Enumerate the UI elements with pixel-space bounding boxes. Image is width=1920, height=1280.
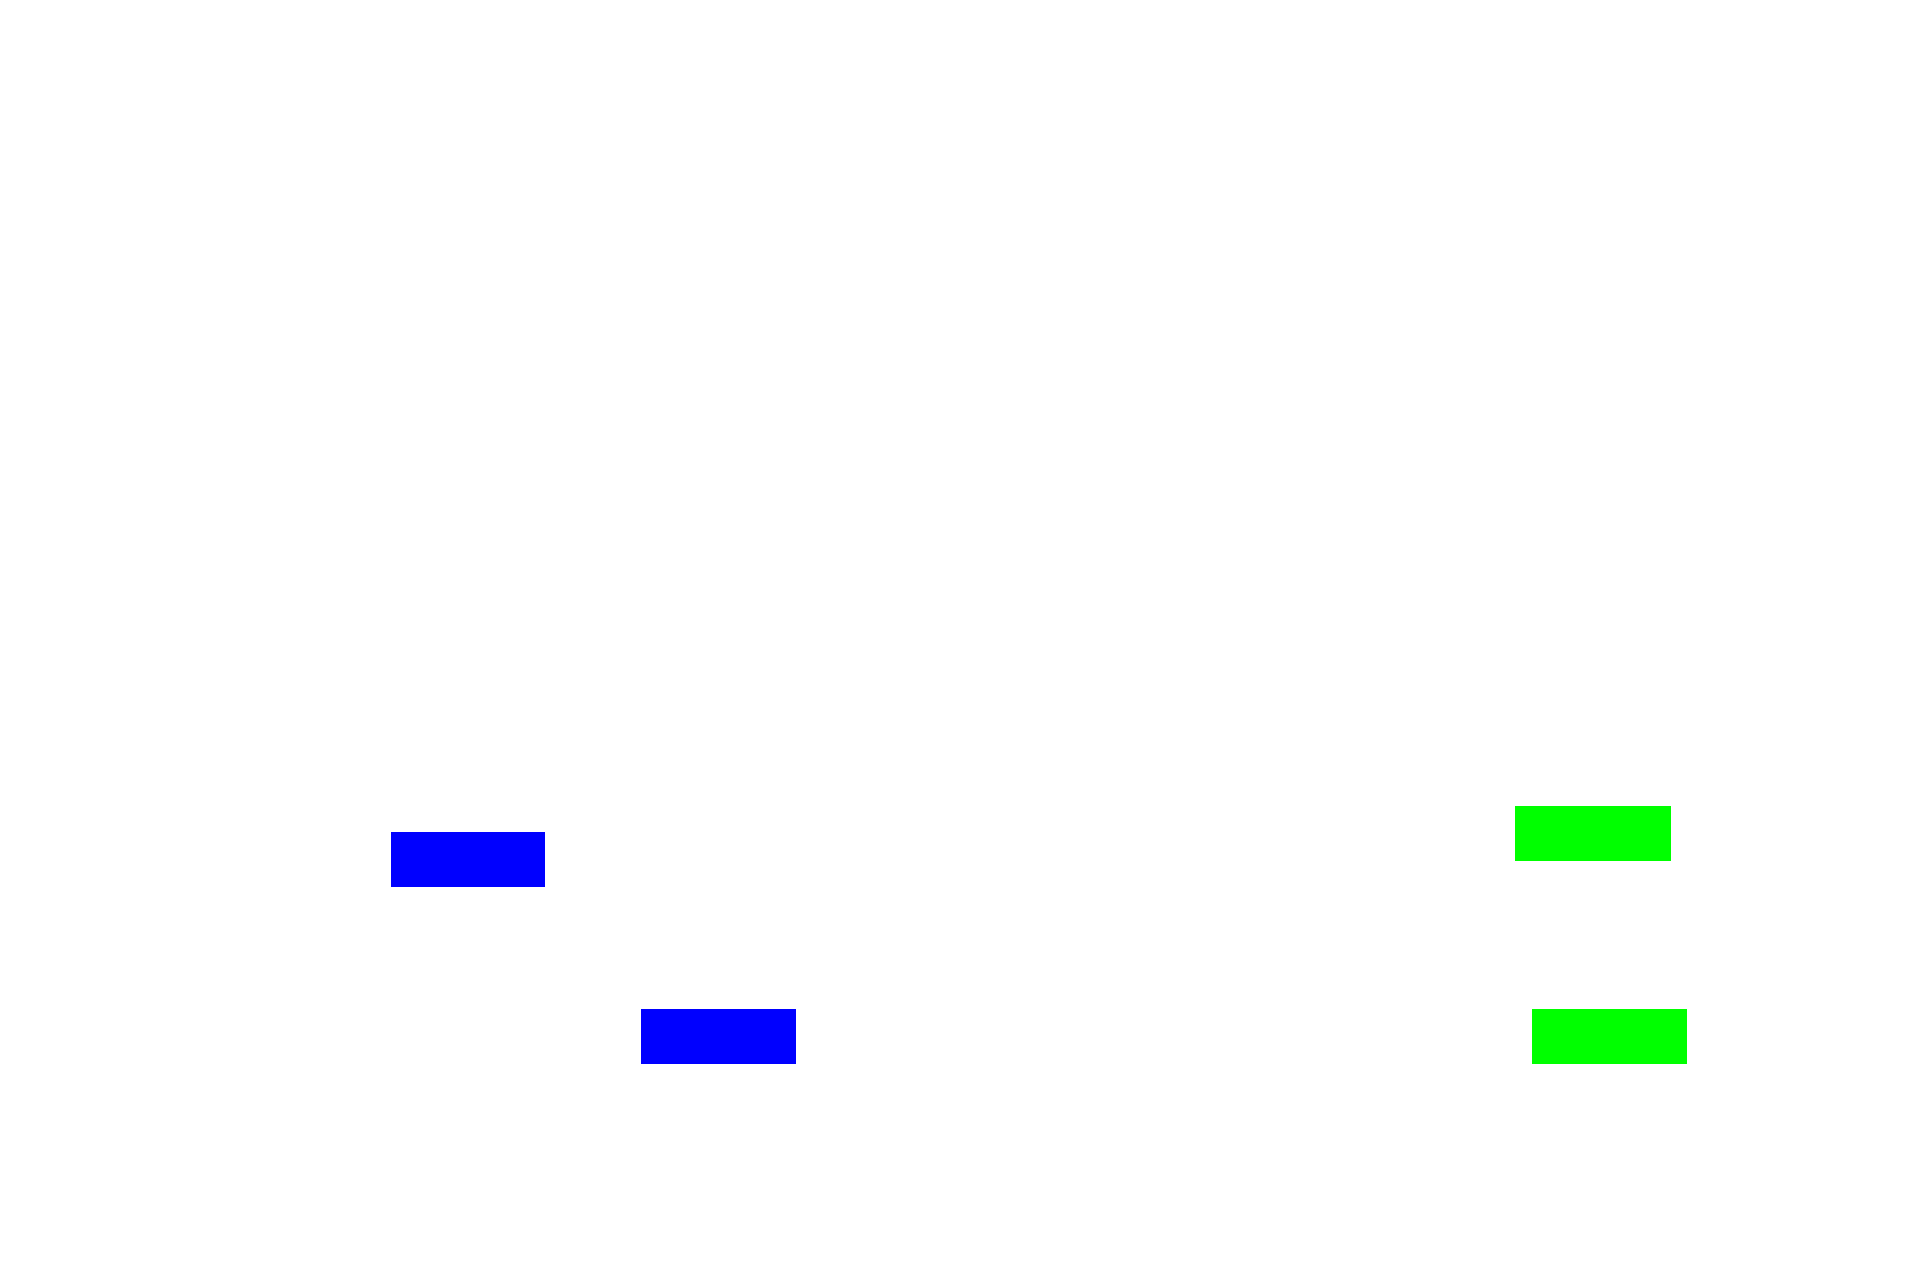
- blue rectangle 2 (center-left): [641, 1009, 796, 1064]
- green rectangle 2 (lower right): [1532, 1009, 1687, 1064]
- blue rectangle 1 (left): [391, 832, 545, 887]
- green rectangle 1 (upper right): [1515, 806, 1671, 861]
